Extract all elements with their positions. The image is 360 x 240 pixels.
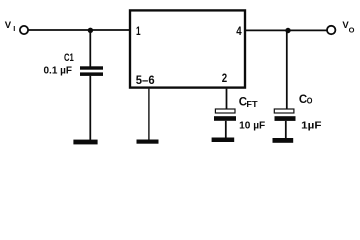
svg-text:O: O [349, 26, 355, 35]
wire CFT lower lead [225, 121, 227, 140]
wire pin2 to CFT [226, 89, 228, 110]
svg-text:10 µF: 10 µF [239, 121, 265, 132]
wire input rail to IC pin1 [28, 29, 130, 31]
label VI [5, 20, 15, 33]
label CFT [239, 96, 258, 109]
wire C1 upper lead [89, 30, 91, 67]
node VI input terminal [20, 26, 28, 34]
wire C1 lower lead [89, 76, 91, 141]
wire IC pin4 to output [245, 29, 327, 31]
node A junction dot input/C1 [88, 28, 93, 33]
svg-text:4: 4 [236, 24, 242, 38]
wire pin5-6 ground lead [148, 89, 150, 141]
ground C1 [73, 140, 97, 145]
node VO output terminal [327, 26, 335, 34]
wire CO lower lead [285, 121, 287, 140]
svg-text:2: 2 [222, 71, 228, 85]
svg-text:0.1 µF: 0.1 µF [44, 66, 73, 77]
capacitor C1 plates [80, 66, 103, 76]
capacitor CO plates (polarized) [274, 109, 295, 121]
svg-text:1µF: 1µF [301, 121, 321, 132]
svg-text:5–6: 5–6 [136, 73, 155, 87]
label VO [342, 20, 354, 34]
svg-text:C1: C1 [64, 52, 74, 64]
svg-text:1: 1 [136, 24, 141, 38]
svg-text:FT: FT [246, 100, 257, 109]
svg-text:O: O [307, 96, 313, 106]
node B junction dot output/CO [285, 28, 290, 33]
svg-text:I: I [13, 24, 15, 33]
op-amp U1 regulator box [130, 10, 245, 87]
svg-text:V: V [5, 20, 12, 31]
label CO [299, 94, 313, 106]
ground CFT [212, 138, 235, 143]
wire CO upper lead [286, 31, 288, 110]
ground CO [273, 138, 294, 143]
ground pins 5-6 [137, 140, 159, 144]
capacitor CFT plates (polarized) [214, 109, 236, 121]
